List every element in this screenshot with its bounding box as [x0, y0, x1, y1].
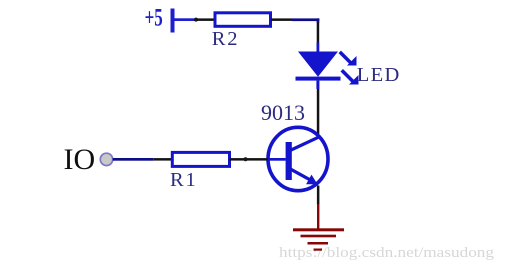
- svg-text:https://blog.csdn.net/masudong: https://blog.csdn.net/masudong: [279, 245, 494, 261]
- svg-text:R1: R1: [170, 169, 198, 191]
- svg-text:LED: LED: [357, 64, 401, 86]
- svg-text:R2: R2: [212, 28, 240, 50]
- svg-text:9013: 9013: [261, 100, 305, 125]
- svg-text:+5: +5: [145, 3, 163, 31]
- svg-text:IO: IO: [64, 143, 96, 176]
